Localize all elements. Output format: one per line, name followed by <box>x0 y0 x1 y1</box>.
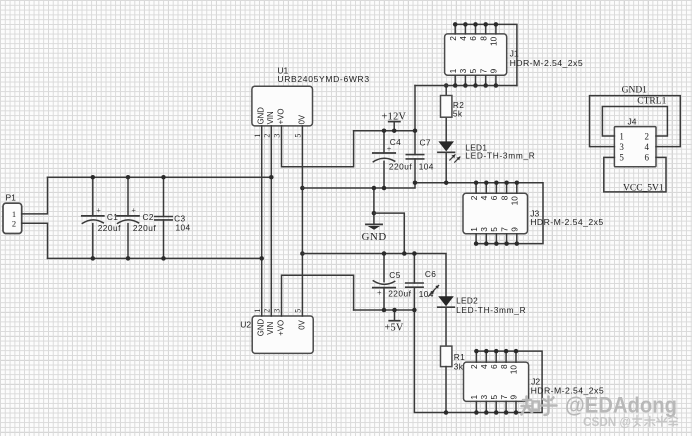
header J4 <box>614 116 656 166</box>
wire GND rail with jog <box>302 183 415 188</box>
wire lower GND rail to LED2 <box>302 254 446 297</box>
wire J1 pin stubs top <box>455 24 496 34</box>
svg-text:2: 2 <box>12 219 16 229</box>
svg-text:5: 5 <box>468 68 478 73</box>
svg-text:3: 3 <box>479 227 489 232</box>
svg-text:+5V: +5V <box>384 323 404 334</box>
node C5 bottom <box>382 308 387 313</box>
J3 pin numbers <box>469 195 520 232</box>
svg-text:LED-TH-3mm_R: LED-TH-3mm_R <box>465 151 535 161</box>
svg-text:220uf: 220uf <box>389 161 412 171</box>
J1 pin numbers <box>448 36 499 74</box>
capacitor C4 <box>373 131 413 188</box>
svg-text:J4: J4 <box>628 116 637 126</box>
capacitor C2 <box>117 177 156 258</box>
svg-text:+VO: +VO <box>276 320 285 336</box>
node J2 top pins <box>474 349 518 354</box>
svg-text:4: 4 <box>479 364 489 369</box>
svg-text:2: 2 <box>645 131 650 141</box>
svg-text:P1: P1 <box>6 193 17 203</box>
svg-text:C4: C4 <box>390 137 401 147</box>
node R2 top on J1 rail <box>444 83 449 88</box>
svg-text:C1: C1 <box>107 212 118 222</box>
svg-text:+: + <box>387 144 392 153</box>
svg-text:3: 3 <box>273 309 282 313</box>
wire P1 pin2 to bottom rail <box>22 223 48 258</box>
node C6 bottom / +5V corner <box>412 308 417 313</box>
resistor R1 <box>441 346 466 412</box>
svg-text:5k: 5k <box>453 108 463 118</box>
svg-text:9: 9 <box>509 395 519 400</box>
svg-text:+: + <box>131 206 136 215</box>
node +12V stem <box>392 128 397 133</box>
svg-text:2: 2 <box>469 195 479 200</box>
wire J2 pin stubs bottom <box>476 401 516 412</box>
svg-text:0V: 0V <box>297 114 306 124</box>
node C4 bottom <box>382 186 387 191</box>
capacitor C7 <box>406 86 433 183</box>
wire CTRL1 loop (J4 pins 1-2) <box>602 107 667 137</box>
node junction GND vertical / bottom rail <box>259 256 264 261</box>
DC-DC module U2 <box>240 309 313 354</box>
svg-text:3: 3 <box>619 142 624 152</box>
LED LED2 <box>429 285 527 346</box>
svg-text:+12V: +12V <box>382 112 407 123</box>
header J3 <box>463 193 604 233</box>
node C6 top <box>412 251 417 256</box>
svg-text:URB2405YMD-6WR3: URB2405YMD-6WR3 <box>277 74 369 84</box>
svg-text:104: 104 <box>176 222 191 232</box>
svg-text:7: 7 <box>499 395 509 400</box>
capacitor C3 <box>155 177 191 258</box>
wire J3 top rail, right wrap and bottom rail <box>415 183 543 244</box>
svg-text:CTRL1: CTRL1 <box>637 97 666 107</box>
node C4 top <box>382 128 387 133</box>
wire J2 pin stubs top <box>476 351 516 362</box>
svg-text:9: 9 <box>510 227 520 232</box>
svg-text:LED-TH-3mm_R: LED-TH-3mm_R <box>456 305 526 315</box>
wire VCC_5V1 loop (J4 pins 5-6) <box>604 157 666 192</box>
svg-text:5: 5 <box>489 395 499 400</box>
svg-text:C7: C7 <box>420 137 431 147</box>
ground symbol GND <box>362 188 387 243</box>
wire U1 pin1 to U2 pin1 (GND chain) <box>261 126 263 316</box>
node branch / lower rail <box>402 251 407 256</box>
svg-text:5: 5 <box>294 309 303 313</box>
wire J3 pin stubs top <box>476 183 517 194</box>
svg-text:1: 1 <box>619 131 624 141</box>
svg-text:1: 1 <box>469 227 479 232</box>
svg-text:104: 104 <box>419 162 434 172</box>
svg-text:3k: 3k <box>454 361 464 371</box>
wire bottom rail (VIN-) <box>48 257 262 259</box>
svg-text:5: 5 <box>619 153 624 163</box>
svg-text:10: 10 <box>510 196 520 206</box>
J2 pin numbers <box>469 364 519 400</box>
svg-text:C6: C6 <box>425 269 436 279</box>
svg-text:8: 8 <box>478 36 488 41</box>
svg-text:4: 4 <box>458 36 468 41</box>
svg-text:2: 2 <box>263 309 272 313</box>
node GND stem branch <box>372 211 377 216</box>
node J2 bottom pins <box>474 410 518 415</box>
svg-text:3: 3 <box>273 134 282 138</box>
svg-text:VIN: VIN <box>266 322 275 335</box>
wire U1 pin2 to U2 pin2 (VIN chain) <box>270 126 272 316</box>
svg-text:GND: GND <box>257 107 266 125</box>
node +5V stem <box>392 308 397 313</box>
node J3 bottom pins <box>474 241 519 246</box>
watermark Zhihu @EDAdong <box>522 393 678 418</box>
DC-DC module U1 <box>252 65 370 137</box>
node: C1 junctions <box>91 175 96 180</box>
svg-text:6: 6 <box>489 195 499 200</box>
svg-text:GND: GND <box>362 231 387 243</box>
svg-text:220uf: 220uf <box>388 288 411 298</box>
svg-text:3: 3 <box>479 395 489 400</box>
connector P1 <box>3 193 22 234</box>
wire J1 pin stubs bottom <box>455 75 496 85</box>
svg-text:2: 2 <box>263 134 272 138</box>
power flag +12V <box>382 112 407 131</box>
svg-text:10: 10 <box>509 365 519 375</box>
svg-text:7: 7 <box>478 68 488 73</box>
svg-text:GND1: GND1 <box>622 86 648 96</box>
node J3 top pins <box>474 180 519 185</box>
svg-text:0V: 0V <box>297 319 306 329</box>
node C7 top junction <box>413 128 418 133</box>
node J1 bottom pins <box>453 83 498 88</box>
wire U2 pin3 +VO to +5V rail <box>282 275 354 316</box>
node J1 top pins <box>453 22 498 27</box>
svg-text:U2: U2 <box>240 319 251 329</box>
wire GND branch to lower rail <box>374 213 404 253</box>
svg-text:220uf: 220uf <box>133 223 156 233</box>
node C7 bottom / J3 rail jog <box>413 180 418 185</box>
svg-text:VIN: VIN <box>266 111 275 124</box>
svg-text:@EDAdong: @EDAdong <box>565 393 677 418</box>
svg-text:2: 2 <box>469 364 479 369</box>
node junction VIN vertical / top rail <box>269 175 274 180</box>
svg-text:1: 1 <box>12 209 16 219</box>
wire +5V rail <box>354 309 415 311</box>
svg-text:10: 10 <box>489 36 499 46</box>
wire +12V rail <box>354 130 415 132</box>
watermark CSDN @jishuxiaobao <box>583 415 677 429</box>
wire J1 bottom rail <box>415 85 517 87</box>
resistor R2 <box>441 86 465 142</box>
svg-text:9: 9 <box>489 68 499 73</box>
svg-text:220uf: 220uf <box>98 223 121 233</box>
wire top rail (VIN+) <box>48 176 272 178</box>
node 0V vertical / GND rail <box>300 186 305 191</box>
LED LED1 <box>438 141 536 182</box>
svg-text:+VO: +VO <box>276 109 285 125</box>
svg-text:5: 5 <box>489 227 499 232</box>
svg-text:1: 1 <box>469 395 479 400</box>
svg-text:4: 4 <box>479 195 489 200</box>
svg-text:2: 2 <box>448 36 458 41</box>
svg-text:5: 5 <box>294 134 303 138</box>
header J1 <box>445 34 583 75</box>
wire U1 pin5 / U2 pin5 0V vertical <box>301 126 303 316</box>
wire GND1 loop (J4 pins 3-4) <box>590 96 681 147</box>
svg-text:1: 1 <box>253 134 262 138</box>
header J2 <box>464 362 605 401</box>
node 0V vertical / lower GND rail <box>300 251 305 256</box>
node: C3 junctions <box>161 175 166 180</box>
svg-text:+: + <box>377 289 382 298</box>
node GND stem on rail <box>372 186 377 191</box>
capacitor C6 <box>406 254 437 311</box>
svg-text:GND: GND <box>257 319 266 337</box>
svg-text:4: 4 <box>645 142 650 152</box>
wire J1 top rail <box>455 24 517 85</box>
svg-text:C5: C5 <box>389 270 400 280</box>
svg-text:3: 3 <box>458 68 468 73</box>
svg-text:1: 1 <box>253 309 262 313</box>
svg-text:CSDN @: CSDN @ <box>583 415 631 429</box>
svg-text:6: 6 <box>489 364 499 369</box>
node C5 top <box>382 251 387 256</box>
svg-text:7: 7 <box>499 227 509 232</box>
wire J3 pin stubs bottom <box>476 234 517 244</box>
svg-text:VCC_5V1: VCC_5V1 <box>623 183 664 193</box>
node LED1 bottom on J3 rail <box>444 180 449 185</box>
svg-text:1: 1 <box>448 68 458 73</box>
node R1 bottom on J2 rail <box>444 410 449 415</box>
wire P1 pin1 to top rail <box>22 177 48 214</box>
capacitor C1 <box>82 177 121 258</box>
svg-text:HDR-M-2.54_2x5: HDR-M-2.54_2x5 <box>510 58 583 68</box>
svg-text:HDR-M-2.54_2x5: HDR-M-2.54_2x5 <box>530 217 603 227</box>
svg-text:6: 6 <box>645 153 650 163</box>
power flag +5V <box>384 310 404 334</box>
wire +5V net down to J2 bottom rail <box>414 310 542 413</box>
wire U1 pin3 +VO to +12V rail <box>282 126 354 167</box>
capacitor C5 <box>373 254 412 311</box>
svg-text:LED2: LED2 <box>456 295 478 305</box>
svg-text:C2: C2 <box>143 212 154 222</box>
svg-text:8: 8 <box>499 364 509 369</box>
svg-text:6: 6 <box>468 36 478 41</box>
svg-text:+: + <box>96 206 101 215</box>
svg-text:8: 8 <box>499 195 509 200</box>
node: C2 junctions <box>126 175 131 180</box>
